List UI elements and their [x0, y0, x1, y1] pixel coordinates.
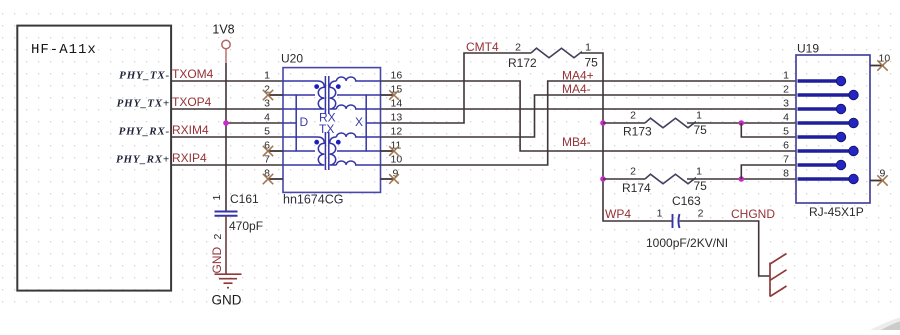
- wire C163 to chassis ground: [680, 221, 771, 276]
- U20 pin11 X: [389, 146, 399, 156]
- svg-text:R174: R174: [622, 181, 651, 195]
- svg-text:GND: GND: [212, 293, 242, 308]
- RX choke to pin14: [337, 105, 381, 109]
- svg-text:1000pF/2KV/NI: 1000pF/2KV/NI: [646, 236, 728, 250]
- U20 pin4 internal stub: [283, 122, 296, 124]
- wire U20 pin4 from 1V8 rail: [226, 122, 283, 124]
- wire U20 pin12 to MA4- jog: [381, 95, 797, 137]
- RJ45 contact bar pin1: [798, 76, 846, 85]
- wire 1V8 rail vertical: [225, 63, 227, 212]
- RX polarity dot left: [314, 84, 319, 89]
- svg-text:7: 7: [783, 154, 789, 166]
- svg-text:14: 14: [391, 98, 403, 110]
- RJ45 pin9 no-connect stub: [870, 180, 884, 182]
- transformer TX core: [325, 132, 328, 170]
- svg-text:R172: R172: [508, 56, 537, 70]
- svg-text:X: X: [355, 115, 363, 129]
- U20 pin6 X: [263, 146, 273, 156]
- wire R174 to RJ45 pin8: [687, 178, 796, 180]
- svg-text:TXOP4: TXOP4: [172, 95, 212, 109]
- wire U20 pin13 to CMT4 riser: [381, 53, 532, 123]
- resistor R173: [623, 110, 707, 139]
- svg-text:2: 2: [698, 208, 704, 220]
- svg-text:3: 3: [783, 98, 789, 110]
- U20 pin15 internal stub: [366, 94, 380, 96]
- junction at 1V8 rail and pin4: [223, 120, 229, 126]
- svg-text:1: 1: [783, 70, 789, 82]
- wire branch to RJ45 pin7: [741, 165, 796, 179]
- connector U19 RJ-45X1P: [796, 42, 870, 220]
- resistor R174: [622, 166, 707, 196]
- svg-text:6: 6: [783, 140, 789, 152]
- svg-text:2: 2: [630, 166, 636, 178]
- capacitor C163: [646, 194, 728, 250]
- svg-text:1: 1: [264, 70, 270, 82]
- svg-text:HF-A11x: HF-A11x: [31, 42, 97, 58]
- transformer RX winding right: [330, 81, 337, 109]
- TX choke to pin12: [337, 133, 381, 137]
- svg-text:75: 75: [585, 56, 599, 70]
- U20 pin11 no-connect stub: [381, 150, 395, 152]
- wire U20 pin14 to RJ45 pin3: [381, 108, 797, 110]
- U20 pin9 no-connect stub: [381, 178, 395, 180]
- RJ45 contact bar pin8: [798, 174, 859, 183]
- wire TXOP4 to U20 pin3: [171, 108, 283, 110]
- svg-text:TXOM4: TXOM4: [172, 67, 214, 81]
- U20 pin2 internal stub: [283, 94, 296, 96]
- wire C161 to GND: [225, 216, 227, 274]
- wire branch to RJ45 pin5: [741, 123, 796, 137]
- svg-text:CMT4: CMT4: [466, 40, 499, 54]
- svg-text:hn1674CG: hn1674CG: [283, 193, 343, 207]
- svg-text:TX: TX: [319, 122, 334, 136]
- svg-text:PHY_RX+: PHY_RX+: [116, 154, 170, 166]
- U20 pin15 X: [389, 90, 399, 100]
- junction RJ45 pin7/8 branch: [739, 176, 745, 182]
- U20 pin6 internal stub: [283, 150, 296, 152]
- transformer TX winding right: [330, 137, 337, 165]
- svg-text:470pF: 470pF: [229, 219, 263, 233]
- svg-text:CHGND: CHGND: [731, 207, 775, 221]
- RJ45 pin9 X: [877, 175, 887, 185]
- svg-text:7: 7: [264, 154, 270, 166]
- RJ45 contact bar pin7: [798, 160, 846, 169]
- svg-text:PHY_RX-: PHY_RX-: [119, 126, 170, 138]
- U20 pin2 no-connect stub: [268, 94, 283, 96]
- svg-text:10: 10: [391, 154, 403, 166]
- svg-text:R173: R173: [623, 125, 652, 139]
- module HF-A11x: [17, 26, 171, 291]
- svg-text:C161: C161: [230, 192, 259, 206]
- svg-text:MA4-: MA4-: [562, 82, 591, 96]
- wire R173 to RJ45 pin4: [687, 122, 796, 124]
- U20 pin11 internal stub: [366, 150, 380, 152]
- svg-text:RXIP4: RXIP4: [172, 151, 207, 165]
- wire RXIP4 to U20 pin7: [171, 164, 283, 166]
- svg-text:5: 5: [783, 126, 789, 138]
- resistor R172: [508, 42, 598, 71]
- RJ45 contact bar pin2: [798, 90, 859, 99]
- svg-text:1: 1: [696, 166, 702, 178]
- U20 pin9 X: [389, 174, 399, 184]
- svg-text:2: 2: [515, 42, 521, 54]
- transformer U20: [281, 52, 381, 207]
- TX choke to pin10: [337, 161, 381, 165]
- svg-text:8: 8: [783, 168, 789, 180]
- TX polarity dot left: [314, 140, 319, 145]
- svg-text:RJ-45X1P: RJ-45X1P: [809, 205, 864, 219]
- junction R173 tap: [600, 120, 606, 126]
- svg-text:2: 2: [212, 234, 224, 240]
- TX polarity dot right: [336, 140, 341, 145]
- wire R173 input: [603, 122, 645, 124]
- svg-text:1: 1: [696, 110, 702, 122]
- RJ45 contact bar pin4: [798, 118, 859, 127]
- svg-text:5: 5: [264, 126, 270, 138]
- svg-text:2: 2: [783, 84, 789, 96]
- wire TXOM4 to U20 pin1: [171, 80, 283, 82]
- wire RXIM4 to U20 pin5: [171, 136, 283, 138]
- wire R172 to junction riser: [581, 53, 673, 221]
- svg-text:U20: U20: [281, 52, 303, 66]
- transformer TX winding left (pins 5-7): [283, 137, 324, 165]
- svg-text:D: D: [300, 115, 309, 129]
- U20 pin6 no-connect stub: [268, 150, 283, 152]
- U20 pin8 X: [263, 174, 273, 184]
- RJ45 contact bar pin5: [798, 132, 846, 141]
- RJ45 contact bar pin3: [798, 104, 846, 113]
- transformer RX core: [325, 76, 328, 114]
- svg-text:RXIM4: RXIM4: [172, 123, 209, 137]
- RJ45 pin10 X: [877, 60, 887, 70]
- junction RJ45 pin4/5 branch: [739, 120, 745, 126]
- svg-text:1: 1: [211, 195, 223, 201]
- svg-text:1V8: 1V8: [212, 23, 234, 37]
- watermark arc bottom-right: [870, 318, 900, 331]
- svg-text:PHY_TX-: PHY_TX-: [119, 70, 170, 82]
- svg-text:16: 16: [391, 70, 403, 82]
- RJ45 pin10 no-connect stub: [870, 65, 884, 67]
- U20 inner box D/X: [296, 95, 366, 151]
- svg-text:U19: U19: [797, 42, 819, 56]
- svg-text:12: 12: [391, 126, 403, 138]
- transformer RX winding left (pins 1-3): [283, 81, 324, 109]
- U20 pin2 X: [263, 90, 273, 100]
- wire U20 pin16 to MB4- jog: [381, 81, 797, 151]
- junction R174 tap: [600, 176, 606, 182]
- power port 1V8: [212, 23, 234, 64]
- svg-text:3: 3: [264, 98, 270, 110]
- RJ45 contact bar pin6: [798, 146, 859, 155]
- svg-text:75: 75: [694, 123, 708, 137]
- svg-text:WP4: WP4: [605, 207, 631, 221]
- U20 pin8 no-connect stub: [268, 178, 283, 180]
- svg-text:PHY_TX+: PHY_TX+: [117, 98, 170, 110]
- chassis ground symbol: [770, 254, 787, 297]
- U20 pin13 internal stub: [366, 122, 380, 124]
- wire R174 input: [603, 178, 645, 180]
- RX choke to pin16: [337, 77, 381, 81]
- U20 pin15 no-connect stub: [381, 94, 395, 96]
- svg-text:GND: GND: [210, 247, 224, 274]
- svg-text:1: 1: [585, 42, 591, 54]
- wire U20 pin10 to MA4+ jog: [381, 81, 797, 165]
- svg-text:MA4+: MA4+: [562, 69, 594, 83]
- svg-text:MB4-: MB4-: [562, 135, 591, 149]
- RX polarity dot right: [336, 84, 341, 89]
- svg-text:4: 4: [783, 112, 789, 124]
- capacitor C161: [211, 192, 263, 240]
- ground symbol GND: [215, 274, 242, 288]
- svg-text:4: 4: [264, 112, 270, 124]
- svg-text:13: 13: [391, 112, 403, 124]
- svg-text:C163: C163: [672, 194, 701, 208]
- svg-text:1: 1: [657, 208, 663, 220]
- svg-text:75: 75: [694, 179, 708, 193]
- svg-text:2: 2: [630, 110, 636, 122]
